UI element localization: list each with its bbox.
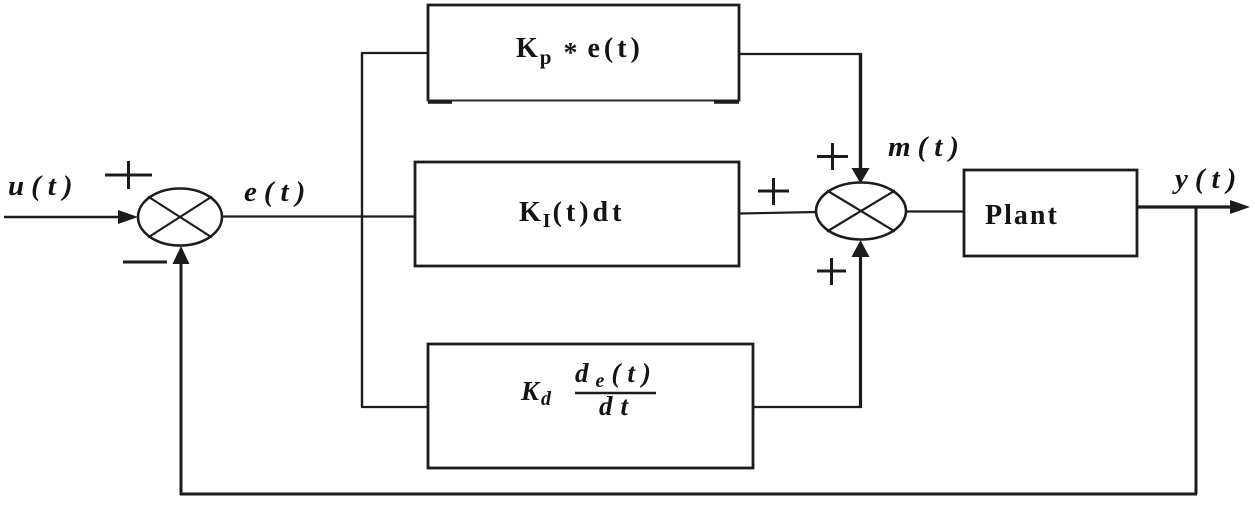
summing junction S2 — [816, 183, 906, 240]
svg-text:dt: dt — [599, 391, 636, 421]
svg-text:u(t): u(t) — [8, 170, 80, 202]
feedback wire left vertical with arrow into S1 — [173, 246, 190, 495]
svg-text:Plant: Plant — [985, 200, 1059, 231]
plus sign at S2 bottom input — [817, 258, 846, 285]
wire Kd output horizontal — [753, 406, 862, 408]
wire Kp output horizontal — [739, 53, 862, 55]
block Kp — [427, 5, 740, 102]
svg-text:y(t): y(t) — [1172, 163, 1243, 195]
wire to Kd block — [361, 406, 428, 408]
feedback wire right vertical — [1195, 207, 1198, 494]
svg-text:e(t): e(t) — [244, 176, 312, 208]
svg-text:KI(t)dt: KI(t)dt — [519, 197, 625, 232]
plus sign at S1 input — [105, 161, 152, 189]
feedback wire bottom horizontal — [180, 493, 1197, 496]
plus sign at S2 top input — [817, 143, 848, 170]
svg-text:m(t): m(t) — [888, 131, 966, 163]
minus sign at S1 feedback input — [123, 261, 167, 264]
wire branch vertical at node — [361, 53, 363, 407]
summing junction S1 — [138, 189, 222, 246]
svg-text:de(t): de(t) — [575, 358, 658, 392]
plus sign at S2 left input — [758, 178, 789, 205]
wire S2 to Plant — [906, 210, 964, 212]
label Kd de(t)/dt — [520, 358, 658, 421]
wire e(t) from S1 to KI block — [222, 215, 415, 217]
wire KI output to S2 — [739, 212, 817, 214]
wire Plant output with arrow — [1137, 200, 1250, 214]
block Plant — [964, 170, 1137, 256]
block Kd — [428, 344, 753, 468]
wire input — [4, 210, 138, 224]
wire to Kp block — [361, 52, 428, 54]
wire Kp drop into S2 with arrow — [852, 53, 870, 184]
wire Kd rise into S2 with arrow — [852, 240, 870, 408]
block KI — [415, 162, 739, 266]
